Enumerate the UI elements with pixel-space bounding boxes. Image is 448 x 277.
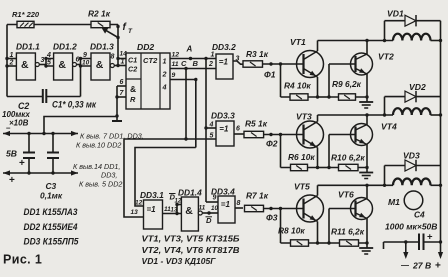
- svg-text:DD2: DD2: [137, 42, 154, 52]
- wire DD1.3 out to node: [114, 57, 119, 67]
- transistor VT2 KT817B: [351, 53, 373, 75]
- label plus bottom: [9, 175, 15, 186]
- wire phase node Ф1: [263, 62, 304, 65]
- resistor R8: [291, 240, 309, 246]
- DD2 label CT2: [143, 56, 158, 65]
- svg-text:C: C: [181, 59, 187, 68]
- svg-text:&: &: [130, 84, 136, 94]
- wire emitter node to VT6 base: [318, 209, 356, 245]
- wire VT4 emitter to ground: [366, 145, 368, 173]
- wire VT5 emitter: [317, 222, 319, 244]
- resistor R7: [245, 205, 264, 211]
- wire stage 2 top: [318, 113, 394, 116]
- capacitor C4 1000mk: [419, 232, 433, 251]
- svg-text:1: 1: [211, 52, 215, 59]
- label DD1.4 pin 12: [175, 199, 182, 205]
- svg-text:DD3.1: DD3.1: [140, 190, 164, 200]
- label DD1.4 pin 11: [199, 205, 206, 212]
- ground bar under DD2: [112, 120, 122, 122]
- svg-text:27 В: 27 В: [412, 261, 431, 271]
- DD2 label &: [130, 84, 136, 94]
- label C2 designator: [18, 101, 29, 111]
- label pin 4: [46, 52, 51, 59]
- svg-text:+: +: [427, 232, 433, 243]
- resistor R6: [291, 164, 308, 170]
- label R3 1к: [246, 49, 269, 59]
- wire R4 leads: [281, 95, 320, 98]
- svg-text:VD3: VD3: [403, 151, 420, 161]
- resistor R10: [339, 164, 359, 170]
- svg-text:R6 10к: R6 10к: [288, 152, 315, 162]
- label DD3.1 pin 12: [135, 200, 143, 207]
- motor M1: [404, 191, 423, 210]
- wire VT1 collector: [317, 41, 319, 52]
- svg-text:VT2: VT2: [378, 52, 394, 62]
- svg-text:R7 1к: R7 1к: [246, 191, 269, 201]
- gate DD1.3 (NAND): [91, 53, 110, 80]
- label DD3.2: [212, 42, 236, 52]
- svg-text:DD1.4: DD1.4: [178, 188, 202, 198]
- DD1.1 pin 1 stub: [5, 57, 16, 60]
- svg-text:A: A: [186, 45, 193, 54]
- label VT2 VT4 VT6 types: [142, 245, 240, 255]
- label DD3.4 pin 8: [237, 200, 241, 207]
- DD1.2 output bubble: [73, 63, 77, 67]
- label Ф3: [266, 213, 278, 223]
- label K vyv.10 DD2: [76, 141, 121, 150]
- svg-text:12: 12: [172, 52, 180, 59]
- svg-text:Рис. 1: Рис. 1: [3, 253, 42, 267]
- svg-text:10: 10: [82, 60, 90, 67]
- transistor VT3 KT315B: [297, 121, 324, 148]
- resistor R3: [243, 61, 263, 67]
- wire R10 leads: [329, 166, 369, 169]
- DD2 pin 1 stub: [118, 59, 126, 66]
- wire net C row (pin 11): [170, 67, 216, 70]
- svg-text:C2: C2: [128, 65, 137, 74]
- wire net A vertical: [204, 59, 207, 203]
- label K vyv.5 DD2: [79, 180, 122, 189]
- wire +27V rail: [440, 21, 442, 242]
- DD1.2 input tie: [44, 57, 53, 68]
- wire winding 1 to rail: [431, 39, 443, 42]
- svg-text:VD2: VD2: [409, 82, 426, 92]
- ground under VT4: [359, 173, 373, 179]
- svg-text:R10 6,2к: R10 6,2к: [331, 153, 365, 163]
- svg-text:+: +: [19, 158, 25, 169]
- label R1* 220: [12, 10, 40, 19]
- wire DD1.1 out to DD1.2 in: [39, 64, 46, 66]
- transistor VT6 KT817B: [351, 198, 373, 220]
- wire VT6 collector: [365, 184, 368, 199]
- svg-text:1000 мк×50В: 1000 мк×50В: [385, 222, 437, 232]
- DD1.3 input tie: [79, 57, 91, 68]
- label DD3.3 pin 6: [236, 126, 240, 133]
- svg-text:+: +: [9, 175, 15, 186]
- wire DD1.4 out to DD3.4 pin10: [202, 211, 218, 214]
- wire base divider drop: [280, 64, 282, 97]
- label DD3.2 pin 1: [211, 52, 215, 59]
- label VT1: [290, 37, 306, 47]
- label R10 6,2к: [331, 153, 365, 163]
- label DD3 cont: [101, 171, 117, 180]
- svg-text:8: 8: [237, 200, 241, 207]
- svg-text:11: 11: [172, 61, 179, 68]
- label x10B: [9, 119, 29, 128]
- label VT3: [296, 112, 312, 122]
- label DD1.3: [90, 42, 114, 52]
- svg-text:5: 5: [47, 60, 51, 67]
- svg-text:R5 1к: R5 1к: [245, 119, 268, 129]
- svg-text:4: 4: [209, 122, 214, 129]
- diode VD3 KD105G: [385, 160, 441, 186]
- transistor VT4 KT817B: [351, 124, 373, 146]
- DD2 label C2: [128, 65, 137, 74]
- inductor motor winding 1: [393, 34, 431, 41]
- svg-text:C3: C3: [46, 181, 57, 191]
- label VD2: [409, 82, 426, 92]
- label DD3.1 pin 11: [164, 206, 171, 213]
- svg-text:VT5: VT5: [294, 182, 310, 192]
- svg-text:=1: =1: [147, 205, 157, 214]
- svg-text:+: +: [435, 261, 441, 272]
- label R11 6,2к: [331, 227, 365, 237]
- label DD3.2 pin 2: [208, 61, 213, 68]
- label DD3.2 pin 3: [236, 56, 240, 63]
- label fT: [123, 22, 134, 35]
- svg-text:Ф1: Ф1: [264, 70, 276, 80]
- DD1.3 output bubble: [110, 64, 114, 68]
- svg-text:D: D: [206, 216, 212, 225]
- wire VT2 emitter to ground: [366, 74, 368, 102]
- svg-text:B: B: [193, 59, 199, 68]
- svg-text:14: 14: [120, 51, 128, 58]
- resistor R9: [339, 94, 356, 100]
- svg-text:M1: M1: [388, 197, 400, 207]
- DD1.4 output bubble: [198, 211, 202, 215]
- svg-text:=1: =1: [219, 125, 229, 134]
- wire VT3 collector: [317, 115, 319, 122]
- label C4: [414, 210, 425, 220]
- label VT2: [378, 52, 394, 62]
- capacitor C1 0,33mk: [43, 89, 47, 103]
- DD2 out label 1: [163, 57, 167, 66]
- svg-text:DD3,: DD3,: [101, 171, 117, 180]
- label -27V+: [401, 261, 441, 272]
- DD2 pin 7 stub: [117, 90, 126, 97]
- svg-text:Ф3: Ф3: [266, 213, 278, 223]
- DD2 label R: [130, 95, 136, 104]
- svg-text:5: 5: [210, 133, 214, 140]
- svg-text:DD1.1: DD1.1: [16, 42, 40, 52]
- label 5B: [6, 149, 17, 159]
- label plus near C2: [19, 158, 25, 169]
- label DD3.1 pin 13: [131, 209, 139, 216]
- svg-text:DD3 К155ЛП5: DD3 К155ЛП5: [24, 237, 80, 247]
- label VT5: [294, 182, 310, 192]
- svg-text:DD2 К155ИЕ4: DD2 К155ИЕ4: [24, 222, 78, 232]
- label DD3.4 pin 9: [213, 195, 217, 202]
- wire VT1 emitter: [317, 77, 319, 97]
- label Ф1: [264, 70, 276, 80]
- svg-text:2: 2: [9, 60, 14, 67]
- svg-text:13: 13: [131, 209, 139, 216]
- wire base divider drop: [280, 209, 282, 244]
- svg-text:DD3.2: DD3.2: [212, 42, 236, 52]
- svg-text:R: R: [130, 95, 136, 104]
- gate DD3.2 (XOR): [216, 54, 233, 79]
- DD1.1 output bubble: [35, 63, 39, 67]
- gate DD1.4 (NAND): [181, 197, 198, 231]
- label R4 10к: [284, 81, 311, 91]
- label pin 12: [172, 52, 180, 59]
- svg-text:DD1.2: DD1.2: [53, 42, 77, 52]
- resistor R5: [244, 131, 264, 137]
- svg-text:C1* 0,33 мк: C1* 0,33 мк: [52, 100, 96, 110]
- svg-text:VT1, VT3, VT5 КТ315Б: VT1, VT3, VT5 КТ315Б: [142, 234, 240, 244]
- svg-text:4: 4: [46, 52, 51, 59]
- label DD2: [137, 42, 154, 52]
- wire DD1.3 pin10 to C1: [80, 66, 82, 97]
- transistor VT1 KT315B: [297, 51, 324, 78]
- wire C1 left: [7, 96, 43, 98]
- svg-text:6: 6: [76, 57, 80, 64]
- DD2 pin 14 stub: [118, 51, 127, 59]
- inductor motor winding 2: [393, 108, 431, 115]
- svg-text:&: &: [58, 59, 66, 71]
- svg-text:11: 11: [199, 205, 206, 212]
- svg-text:DD3.3: DD3.3: [211, 111, 235, 121]
- wire C1 right: [46, 96, 80, 98]
- label node D: [169, 193, 176, 202]
- svg-text:3: 3: [236, 56, 240, 63]
- ground under VT6: [359, 248, 373, 254]
- diode VD1 KD105G: [385, 15, 441, 41]
- DD2 pin 6 stub: [117, 79, 126, 86]
- wire emitter node to VT4 base: [318, 135, 356, 170]
- label 1000 мк x 50В: [385, 222, 437, 232]
- wire phase node Ф3: [264, 207, 304, 210]
- label 100мкх: [2, 110, 30, 119]
- svg-text:9: 9: [213, 195, 217, 202]
- label pin 6: [76, 57, 80, 64]
- wire net B vertical: [195, 80, 197, 148]
- svg-text:VT4: VT4: [381, 122, 397, 132]
- svg-text:&: &: [185, 205, 193, 217]
- gate DD3.3 (XOR): [216, 121, 234, 146]
- label minus: [6, 124, 11, 133]
- label C1* 0,33 мк: [52, 100, 96, 110]
- svg-text:R4 10к: R4 10к: [284, 81, 311, 91]
- resistor R1 220 (selected): [17, 21, 34, 27]
- label R9 6,2к: [332, 79, 362, 89]
- label DD3.4: [211, 187, 235, 197]
- label DD1.4 pin 13: [171, 208, 178, 214]
- svg-text:VT3: VT3: [296, 112, 312, 122]
- wire emitter node to VT2 base: [318, 64, 356, 99]
- wire DD3.3 out to R5: [234, 133, 244, 135]
- svg-text:C4: C4: [414, 210, 425, 220]
- label pin 3: [41, 57, 45, 64]
- DD2 label C1: [128, 56, 137, 65]
- wire net C vertical: [184, 69, 187, 141]
- wire winding 2 to rail: [431, 113, 443, 116]
- label R5 1к: [245, 119, 268, 129]
- DD2 out label 2: [162, 70, 167, 79]
- DD2 out label 4: [162, 83, 167, 92]
- svg-text:5В: 5В: [6, 149, 17, 159]
- wire base divider drop: [280, 135, 282, 168]
- svg-text:2: 2: [162, 70, 167, 79]
- label node D-bar: [206, 216, 213, 225]
- caption Ris.1: [3, 253, 42, 267]
- wire DD3.4 pin 9 from net A: [206, 201, 218, 203]
- svg-text:6: 6: [236, 126, 240, 133]
- svg-text:VT2, VT4, VT6 КТ817В: VT2, VT4, VT6 КТ817В: [142, 245, 240, 255]
- label DD1 type: [24, 207, 78, 217]
- label VD3: [403, 151, 420, 161]
- label K vyv.7 DD1, DD3: [80, 132, 144, 141]
- wire winding 3 to rail: [431, 184, 443, 187]
- label pin 8: [111, 54, 115, 61]
- svg-text:R3 1к: R3 1к: [246, 49, 269, 59]
- label pin 1: [10, 52, 14, 59]
- label DD3.4 pin 10: [211, 205, 218, 212]
- label pin 2: [9, 60, 14, 67]
- wire pins 6-7 tie to ground: [115, 86, 118, 121]
- svg-text:&: &: [21, 59, 29, 71]
- label DD1.4: [178, 188, 202, 198]
- label DD3 type: [24, 237, 80, 247]
- wire R11 leads: [329, 241, 369, 244]
- svg-text:VT1: VT1: [290, 37, 306, 47]
- label M1: [388, 197, 400, 207]
- supply rail plus (bottom): [3, 170, 78, 175]
- svg-text:2: 2: [208, 61, 213, 68]
- svg-text:К выв. 7 DD1, DD3,: К выв. 7 DD1, DD3,: [80, 132, 144, 141]
- label R2 1к: [88, 9, 111, 19]
- svg-text:R11 6,2к: R11 6,2к: [331, 227, 365, 237]
- wire R8 leads: [281, 241, 320, 244]
- label DD3.3 pin 4: [209, 122, 214, 129]
- svg-text:8: 8: [111, 54, 115, 61]
- label VT6: [338, 190, 354, 200]
- label Ф2: [266, 139, 278, 149]
- wire VT6 emitter to ground: [366, 219, 368, 249]
- gate DD1.1 (NAND): [16, 53, 35, 80]
- label VT4: [381, 122, 397, 132]
- label R8 10к: [278, 226, 305, 236]
- counter DD2 K155IE4 box: [126, 53, 170, 109]
- wire VT2 collector: [365, 39, 368, 54]
- wire R9 leads: [329, 95, 369, 98]
- label R7 1к: [246, 191, 269, 201]
- wire R2 to fT node: [110, 25, 118, 66]
- svg-text:R2 1к: R2 1к: [88, 9, 111, 19]
- svg-text:=1: =1: [221, 200, 231, 209]
- label K vyv.14 DD1: [73, 162, 120, 171]
- wire phase node Ф2: [264, 133, 304, 136]
- wire supply bottom: [384, 240, 443, 249]
- wire VT3 emitter: [317, 148, 319, 168]
- gate DD1.2 (NAND): [54, 53, 73, 80]
- label C3: [46, 181, 57, 191]
- inductor motor winding 3: [393, 179, 431, 186]
- svg-text:DD1 К155ЛА3: DD1 К155ЛА3: [24, 207, 78, 217]
- resistor R11: [340, 240, 359, 246]
- wire R6 leads: [281, 166, 320, 169]
- svg-text:13: 13: [171, 208, 178, 214]
- wire DD3.3 pin 4 from net A: [206, 127, 216, 129]
- svg-text:1: 1: [10, 52, 14, 59]
- label VD1-VD3 types: [142, 256, 217, 266]
- svg-text:R1* 220: R1* 220: [12, 10, 40, 19]
- wire ground link to rail: [44, 117, 117, 134]
- label DD3.3 pin 5: [210, 133, 214, 140]
- wire net B row (pin 9): [170, 78, 198, 81]
- wire DD1.4 input tie: [175, 203, 181, 214]
- label pin 10: [82, 60, 90, 67]
- svg-text:VT6: VT6: [338, 190, 354, 200]
- gate DD3.4 (XOR): [218, 196, 235, 223]
- wire VT5 collector: [317, 185, 319, 195]
- label DD3.1: [140, 190, 164, 200]
- supply rail minus (top): [3, 131, 78, 136]
- terminal plus 27V: [438, 242, 443, 259]
- label pin 9: [172, 72, 176, 79]
- wire DD1.2 out to DD1.3 in: [77, 64, 81, 66]
- R2 wiper arrow: [102, 27, 119, 37]
- svg-text:×10В: ×10В: [9, 119, 29, 128]
- resistor R2 1k trimmer: [91, 21, 110, 27]
- svg-text:4: 4: [162, 83, 167, 92]
- svg-text:VD1: VD1: [387, 9, 404, 19]
- svg-text:=1: =1: [219, 58, 229, 67]
- label node C: [181, 59, 187, 68]
- svg-text:&: &: [96, 59, 104, 71]
- svg-text:0,1мк: 0,1мк: [40, 191, 63, 201]
- svg-text:DD1.3: DD1.3: [90, 42, 114, 52]
- node fT junction dots: [116, 25, 119, 39]
- wire to DD3.1 pin13 and DD3.3 pin5: [124, 139, 216, 217]
- wire net A row (pin 12): [170, 57, 216, 60]
- svg-text:—: —: [401, 261, 409, 270]
- svg-text:CT2: CT2: [143, 56, 158, 65]
- label R6 10к: [288, 152, 315, 162]
- label VT1 VT3 VT5 types: [142, 234, 240, 244]
- svg-text:9: 9: [172, 72, 176, 79]
- ground under VT2: [359, 102, 373, 108]
- wire stage 1 top: [318, 39, 394, 42]
- capacitor C2 100mk: [23, 134, 35, 174]
- svg-text:9: 9: [83, 52, 87, 59]
- label 0,1мк: [40, 191, 63, 201]
- label pin 9: [83, 52, 87, 59]
- label pin 5: [47, 60, 51, 67]
- svg-text:Ф2: Ф2: [266, 139, 278, 149]
- wire to DD3.1 pin12: [135, 148, 196, 207]
- wire R1 to R2 top: [7, 24, 91, 26]
- wire DD3.2 out to R3: [233, 61, 243, 64]
- svg-text:R9 6,2к: R9 6,2к: [332, 79, 362, 89]
- wire VT4 collector: [365, 113, 368, 124]
- svg-text:1: 1: [163, 57, 167, 66]
- svg-text:VD1 - VD3 КД105Г: VD1 - VD3 КД105Г: [142, 256, 217, 266]
- diode VD2 KD105G: [385, 91, 441, 115]
- svg-text:C1: C1: [128, 56, 137, 65]
- label DD1.2: [53, 42, 77, 52]
- svg-text:12: 12: [135, 200, 143, 207]
